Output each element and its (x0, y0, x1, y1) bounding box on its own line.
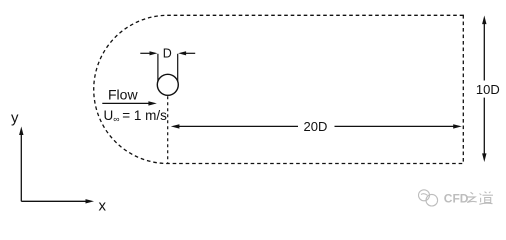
svg-text:x: x (99, 198, 107, 215)
svg-text:y: y (11, 109, 19, 126)
svg-text:U∞ = 1 m/s: U∞ = 1 m/s (104, 108, 168, 124)
svg-text:D: D (163, 46, 172, 60)
svg-text:10D: 10D (476, 82, 500, 97)
svg-text:CFD: CFD (444, 191, 469, 205)
svg-text:20D: 20D (304, 119, 328, 134)
svg-text:Flow: Flow (108, 87, 138, 103)
